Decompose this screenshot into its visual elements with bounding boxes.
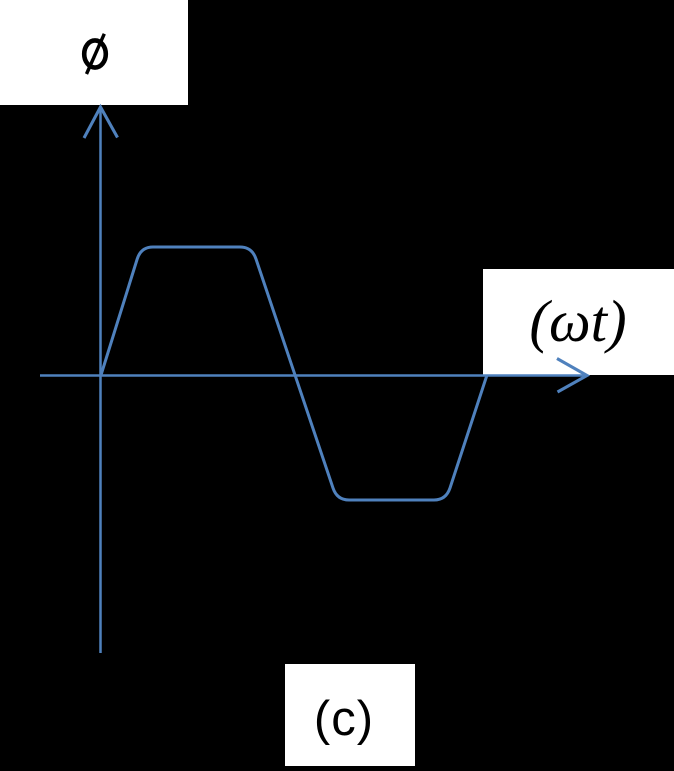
y-axis arrowhead [84,107,118,138]
x-axis shaft [40,374,587,377]
label box (c) (bottom white box) [285,664,415,766]
label box (wt) (right white box) [483,269,674,375]
x-axis arrowhead [557,359,587,393]
svg-text:(c): (c) [314,692,374,746]
waveform trapezoidal curve [101,247,487,500]
y-axis shaft [99,107,102,653]
svg-text:(ωt): (ωt) [529,288,626,354]
label box phi (top-left white box) [0,0,188,105]
label phi symbol [84,34,106,74]
